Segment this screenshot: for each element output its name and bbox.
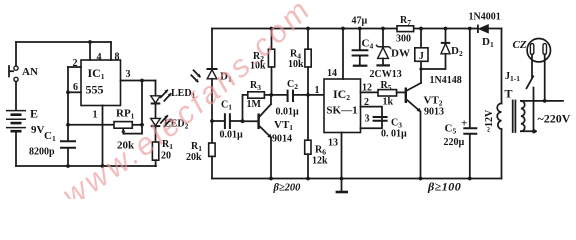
svg-text:D1: D1	[482, 36, 494, 49]
svg-text:14: 14	[327, 68, 337, 79]
capacitor C1 8200p	[29, 130, 76, 158]
wire pins2-6 vertical to C1	[67, 67, 69, 141]
node R6 ground	[306, 177, 310, 181]
svg-text:C4: C4	[362, 38, 374, 51]
svg-text:C1: C1	[44, 130, 56, 143]
node VT1 emitter ground	[269, 177, 273, 181]
svg-text:12: 12	[362, 83, 372, 94]
wire RP branch vertical	[141, 81, 143, 134]
wire switch to battery	[15, 82, 17, 110]
svg-text:10k: 10k	[288, 59, 304, 70]
resistor R2 10k	[250, 29, 275, 95]
svg-text:555: 555	[86, 83, 104, 97]
relay J coil	[415, 29, 428, 84]
node socket 220V junction	[543, 99, 547, 103]
wire IC2 pin13 to ground	[341, 133, 343, 179]
node pin14 rail	[341, 27, 345, 31]
svg-text:~220V: ~220V	[538, 112, 571, 126]
diode D1 1N4001	[469, 12, 501, 50]
wire receiver bottom rail	[212, 178, 502, 180]
svg-text:~12V: ~12V	[484, 109, 495, 132]
node RP1 wiper tie	[140, 123, 144, 127]
svg-text:C2: C2	[287, 79, 298, 91]
svg-text:300: 300	[396, 34, 411, 45]
node R4 pin1 line	[306, 93, 310, 97]
node C1 ground	[66, 164, 70, 168]
svg-text:9013: 9013	[424, 107, 444, 118]
transformer T	[497, 87, 525, 179]
wire switch to rail vertical	[15, 42, 17, 66]
LED1	[151, 88, 196, 104]
svg-text:1: 1	[93, 110, 98, 121]
wire pin1 to bottom rail	[102, 106, 104, 167]
wire battery to bottom rail	[15, 132, 17, 167]
svg-text:J1-1: J1-1	[505, 71, 520, 83]
resistor R4 10k	[288, 29, 311, 95]
svg-text:RP1: RP1	[116, 108, 135, 121]
wire pin2	[68, 66, 81, 68]
wire R1 20k to bottom rail	[211, 156, 213, 178]
transistor VT1 9014	[259, 95, 294, 179]
wire IC2 pin14 to rail	[342, 29, 344, 80]
svg-text:VT1: VT1	[274, 119, 293, 132]
svg-text:R7: R7	[400, 15, 411, 27]
svg-text:β≥200: β≥200	[273, 183, 302, 194]
svg-text:D2: D2	[451, 45, 463, 58]
svg-text:1k: 1k	[383, 97, 394, 108]
resistor R1 20	[152, 139, 173, 162]
svg-text:+: +	[461, 118, 467, 130]
wire to RP1	[68, 124, 114, 126]
wire receiver top rail left segment	[212, 28, 397, 30]
svg-text:C5: C5	[445, 123, 457, 136]
svg-text:E: E	[30, 107, 38, 121]
svg-text:9014: 9014	[272, 134, 292, 145]
capacitor C4 47u	[352, 16, 374, 66]
wire R1 to bottom rail	[155, 160, 157, 166]
wire socket right pin to 220V line	[544, 54, 546, 101]
svg-text:0.01µ: 0.01µ	[220, 130, 244, 141]
node C1 R3 base junction	[241, 119, 245, 123]
node collector junction	[269, 93, 273, 97]
transistor VT2 9013	[406, 83, 444, 179]
relay contact J1-1	[505, 54, 534, 131]
wire RP1 right lead	[132, 124, 142, 126]
node pin4 rail junction	[88, 40, 92, 44]
svg-text:0. 01µ: 0. 01µ	[381, 129, 407, 140]
switch AN	[9, 66, 38, 82]
svg-text:3: 3	[126, 69, 131, 80]
svg-text:R3: R3	[250, 80, 261, 92]
wire C1 to bottom rail	[67, 148, 69, 166]
node D2 rail	[444, 27, 448, 31]
svg-text:2CW13: 2CW13	[370, 69, 402, 80]
node R4 rail	[306, 27, 310, 31]
node VT2 emitter ground	[419, 177, 423, 181]
node R2 rail	[270, 27, 274, 31]
wire rectifier output down to transformer	[501, 29, 503, 104]
svg-text:AN: AN	[22, 66, 38, 78]
svg-text:0.01µ: 0.01µ	[276, 107, 300, 118]
wire LED1 to LED2	[155, 104, 157, 119]
node C5 ground	[468, 177, 472, 181]
LED2	[151, 115, 189, 130]
wire pin3 down to LED1	[155, 81, 157, 96]
IC U2 : IC2 SK-1 amplifier block	[324, 79, 361, 133]
node pins 2-6 tie	[66, 90, 70, 94]
capacitor C3 0.01u	[373, 117, 407, 140]
svg-text:220µ: 220µ	[444, 137, 465, 148]
svg-text:CZ: CZ	[513, 39, 527, 51]
zener diode DW 2CW13	[370, 29, 410, 81]
svg-text:9V: 9V	[31, 124, 45, 136]
svg-text:1N4001: 1N4001	[469, 12, 501, 23]
svg-text:DW: DW	[391, 48, 410, 60]
node pin3 RP branch	[140, 79, 144, 83]
capacitor C1 0.01u	[212, 100, 243, 141]
svg-text:6: 6	[73, 82, 78, 93]
resistor R6 12k	[305, 95, 328, 179]
svg-text:12k: 12k	[312, 156, 328, 167]
svg-text:R5: R5	[381, 80, 392, 92]
ground	[341, 179, 343, 192]
wire LED2 to R1	[155, 126, 157, 142]
svg-text:T: T	[505, 87, 513, 101]
node zener rail	[381, 27, 385, 31]
wire transmitter bottom rail	[16, 165, 156, 167]
svg-text:J: J	[419, 51, 424, 62]
svg-text:SK—1: SK—1	[326, 105, 357, 117]
wire R3 left vertical	[243, 95, 248, 121]
svg-text:1N4148: 1N4148	[430, 75, 462, 86]
wire pin6	[68, 91, 81, 93]
capacitor C2 0.01u	[276, 79, 325, 118]
wire transformer bottom lead	[521, 130, 536, 132]
wire receiver top rail right segment	[414, 28, 479, 30]
node transformer bottom junction	[532, 129, 536, 133]
wire IC2 pin12	[361, 91, 379, 93]
potentiometer RP1 20k	[114, 108, 142, 152]
wire pin4 to rail	[89, 42, 91, 60]
capacitor C5 220u	[444, 29, 478, 179]
wire pin3 output	[121, 80, 156, 82]
wire receiver top rail far right segment	[488, 28, 501, 30]
wire IC2 pin2 bracket	[361, 107, 383, 129]
wire transmitter top rail	[16, 41, 111, 43]
IC1 555 timer	[73, 52, 131, 121]
resistor R1 20k	[186, 141, 215, 163]
wire pin8 to rail	[110, 42, 112, 60]
node relay rail	[419, 27, 423, 31]
svg-text:1: 1	[315, 85, 320, 96]
svg-text:β≥100: β≥100	[427, 180, 461, 194]
resistor R5 1k	[378, 80, 397, 108]
svg-text:2: 2	[364, 97, 369, 108]
svg-text:8: 8	[115, 52, 120, 63]
wire base node to VT1	[243, 120, 259, 122]
svg-text:20k: 20k	[186, 152, 202, 163]
svg-text:47µ: 47µ	[352, 16, 368, 27]
resistor R7 300	[396, 15, 414, 45]
svg-text:13: 13	[328, 138, 338, 149]
wire R5 to VT2 base	[397, 91, 405, 93]
socket CZ	[513, 39, 551, 62]
node C5 rail	[468, 27, 472, 31]
battery E 9V	[6, 107, 45, 137]
node RP1 branch	[66, 123, 70, 127]
node C4 rail	[358, 27, 362, 31]
resistor R3 1M	[247, 80, 265, 110]
svg-text:4: 4	[97, 52, 102, 63]
photodiode D1	[191, 29, 232, 84]
wire 220V line	[521, 100, 563, 102]
node pin1 ground	[101, 164, 105, 168]
svg-text:1M: 1M	[247, 99, 262, 110]
diode D2 1N4148	[419, 29, 463, 87]
svg-text:3: 3	[365, 114, 370, 125]
wire R3 to collector node	[264, 94, 287, 96]
node pin13 ground rail	[340, 177, 344, 181]
wire D1 to C1 node	[211, 79, 213, 143]
svg-text:8200p: 8200p	[29, 147, 55, 158]
node D1 R1 C1 junction	[210, 119, 214, 123]
